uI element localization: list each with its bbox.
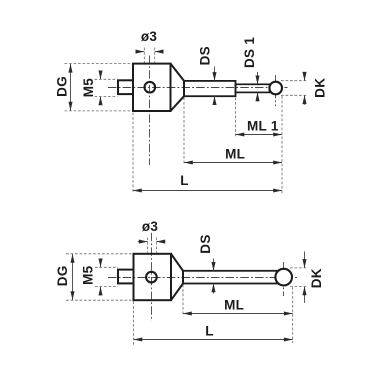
svg-text:L: L xyxy=(205,323,214,338)
dim o3 arrows top xyxy=(136,50,164,54)
extension lines o3 bottom xyxy=(148,238,157,253)
dim M5 bottom xyxy=(98,259,102,296)
dim L bottom xyxy=(134,337,293,341)
svg-text:ø3: ø3 xyxy=(142,219,159,234)
svg-text:ML 1: ML 1 xyxy=(247,119,279,134)
thread stub M5 top xyxy=(118,80,133,94)
centerline vertical ball bottom xyxy=(283,262,285,296)
svg-text:DG: DG xyxy=(54,76,69,97)
body bottom xyxy=(134,254,172,300)
extension lines M5 bottom xyxy=(95,267,118,286)
ball DK top xyxy=(269,82,282,95)
dim L top xyxy=(133,188,282,192)
svg-text:DG: DG xyxy=(55,265,70,286)
extension lines o3 top xyxy=(144,48,154,63)
taper cone bottom xyxy=(171,254,183,300)
hole o3 bottom xyxy=(146,272,157,283)
extension line ball-tip top xyxy=(281,96,283,194)
body top xyxy=(133,64,171,111)
extension lines DG bottom xyxy=(66,254,132,300)
dim ML1 top xyxy=(236,132,283,136)
extension line taper-end top xyxy=(183,98,185,166)
shaft DS1 top xyxy=(236,84,270,92)
centerline vertical hole bottom xyxy=(151,233,153,321)
dim DS top xyxy=(212,67,216,106)
svg-text:DS: DS xyxy=(198,234,213,253)
centerline axis top stylus xyxy=(108,87,288,89)
dim ML top xyxy=(184,160,282,164)
svg-text:DK: DK xyxy=(313,78,328,98)
extension line taper-end bottom xyxy=(182,285,184,317)
svg-text:ML: ML xyxy=(225,147,245,162)
extension line body-left top xyxy=(132,113,134,194)
svg-text:ML: ML xyxy=(224,297,244,312)
extension line ball-tip bottom xyxy=(292,287,294,343)
svg-text:DS: DS xyxy=(198,46,213,65)
svg-text:M5: M5 xyxy=(81,265,96,285)
svg-text:M5: M5 xyxy=(81,78,96,98)
taper cone top xyxy=(171,64,185,111)
extension line body-left bottom xyxy=(133,302,135,346)
extension lines DK top xyxy=(281,81,308,96)
dim DG top xyxy=(68,64,72,111)
extension line step top xyxy=(235,98,237,138)
dim DG bottom xyxy=(70,254,74,300)
svg-text:L: L xyxy=(180,173,189,188)
dim DK bottom xyxy=(302,252,306,303)
centerline vertical ball top xyxy=(275,75,277,106)
svg-text:DK: DK xyxy=(309,268,324,288)
shaft DS bottom xyxy=(183,271,277,284)
dim M5 top xyxy=(98,71,102,106)
extension lines DK bottom xyxy=(290,268,308,287)
dim DS bottom xyxy=(211,259,215,294)
thread stub M5 bottom xyxy=(118,270,134,284)
shaft DS top xyxy=(184,81,236,96)
dim DS1 top xyxy=(255,72,259,102)
extension lines DG top xyxy=(65,64,132,111)
hole o3 top xyxy=(145,82,156,93)
svg-text:DS 1: DS 1 xyxy=(242,37,257,68)
dim DK top xyxy=(302,72,306,105)
dim o3 arrows bottom xyxy=(138,240,166,244)
svg-text:ø3: ø3 xyxy=(141,29,158,44)
dim ML bottom xyxy=(183,311,293,315)
ball DK bottom xyxy=(275,269,292,286)
centerline vertical hole top xyxy=(149,56,151,166)
extension lines M5 top xyxy=(95,79,118,96)
centerline axis bottom stylus xyxy=(108,277,299,279)
